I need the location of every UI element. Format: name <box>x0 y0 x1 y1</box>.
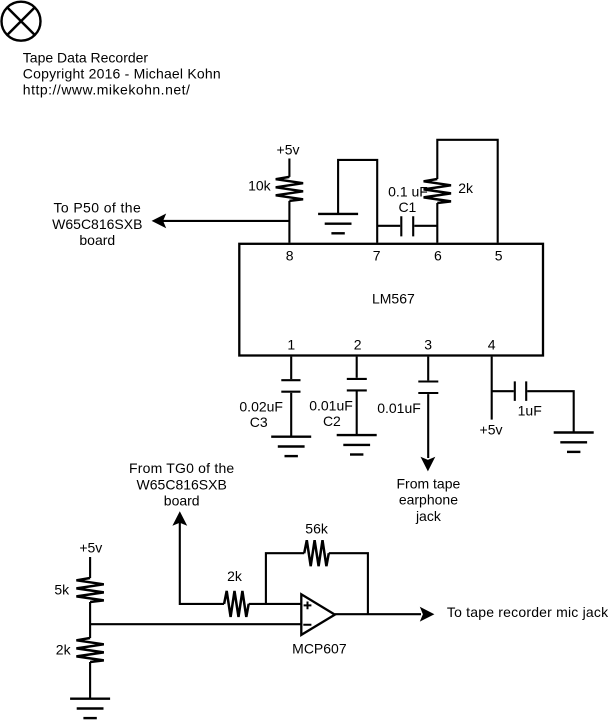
svg-text:From TG0 of the: From TG0 of the <box>129 460 234 476</box>
svg-text:board: board <box>164 493 200 509</box>
svg-text:5k: 5k <box>54 581 70 597</box>
svg-text:2k: 2k <box>227 568 243 584</box>
svg-text:board: board <box>79 232 115 248</box>
svg-text:1uF: 1uF <box>518 402 542 418</box>
svg-text:0.1 uF: 0.1 uF <box>388 183 428 199</box>
svg-text:C3: C3 <box>250 414 268 430</box>
svg-text:6: 6 <box>434 248 442 264</box>
svg-text:Tape Data Recorder: Tape Data Recorder <box>23 49 149 65</box>
svg-text:2k: 2k <box>56 641 72 657</box>
svg-text:W65C816SXB: W65C816SXB <box>137 476 227 492</box>
svg-text:+5v: +5v <box>79 539 102 555</box>
svg-text:+5v: +5v <box>277 142 300 158</box>
svg-text:C1: C1 <box>398 199 416 215</box>
svg-text:To P50 of the: To P50 of the <box>53 200 141 216</box>
svg-text:2: 2 <box>354 336 362 352</box>
svg-text:http://www.mikekohn.net/: http://www.mikekohn.net/ <box>23 82 191 98</box>
svg-text:1: 1 <box>287 336 295 352</box>
svg-text:10k: 10k <box>248 177 272 193</box>
svg-text:0.01uF: 0.01uF <box>377 400 421 416</box>
svg-text:8: 8 <box>286 248 294 264</box>
svg-text:56k: 56k <box>305 521 329 537</box>
svg-text:To tape recorder mic jack: To tape recorder mic jack <box>447 604 608 620</box>
svg-text:7: 7 <box>373 248 381 264</box>
svg-text:earphone: earphone <box>399 492 458 508</box>
svg-text:0.01uF: 0.01uF <box>309 398 353 414</box>
svg-text:5: 5 <box>495 248 503 264</box>
svg-text:0.02uF: 0.02uF <box>239 398 283 414</box>
svg-text:W65C816SXB: W65C816SXB <box>52 216 142 232</box>
svg-text:LM567: LM567 <box>372 290 415 306</box>
svg-text:Copyright 2016 - Michael Kohn: Copyright 2016 - Michael Kohn <box>23 66 221 82</box>
svg-text:4: 4 <box>488 336 496 352</box>
svg-text:MCP607: MCP607 <box>292 641 347 657</box>
svg-text:jack: jack <box>415 508 442 524</box>
svg-text:3: 3 <box>424 336 432 352</box>
svg-text:From tape: From tape <box>396 475 460 491</box>
svg-text:2k: 2k <box>458 180 474 196</box>
svg-text:+5v: +5v <box>480 421 503 437</box>
svg-text:C2: C2 <box>323 413 341 429</box>
